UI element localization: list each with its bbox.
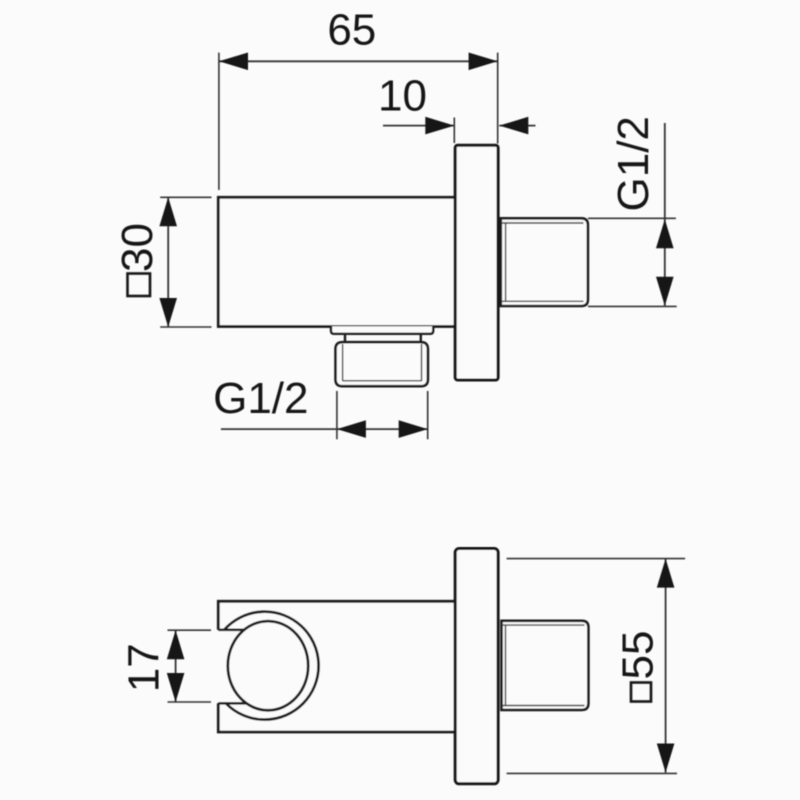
holder slot lines [218, 630, 246, 704]
elbow body (side view) [218, 197, 455, 326]
dim 17 arrow up [167, 630, 185, 659]
dim G1/2 bottom: extension lines [337, 391, 428, 439]
svg-text:65: 65 [327, 6, 376, 55]
dim 30 extension lines [160, 197, 211, 327]
thread connector (front view) inner lines [502, 625, 585, 705]
dim G1/2 bottom: leader + line [221, 428, 428, 430]
dim 10 line right tail [499, 125, 535, 127]
dim 30 arrow up [159, 197, 177, 226]
dim 55 square symbol [631, 683, 651, 702]
dim 10 arrow left [425, 117, 454, 135]
bottom outlet thread inner lines [343, 344, 422, 381]
right thread connector outer [501, 218, 588, 306]
svg-text:10: 10 [378, 72, 427, 121]
dim 55 arrow down [657, 744, 675, 773]
dim 17 arrow down [167, 673, 185, 702]
holder body (front view) with slot opening on left edge [218, 601, 455, 732]
dim 65 extension line left [218, 53, 220, 190]
dim 55 line [665, 559, 667, 773]
dim 65 arrow left [219, 53, 248, 71]
dim G1/2 right: arrow down [656, 277, 674, 306]
wall flange (front view) [455, 549, 498, 784]
dim 55 arrow up [657, 559, 675, 588]
dim 30 square symbol [128, 274, 151, 297]
bottom outlet neck [345, 334, 421, 342]
wall flange (side view) [455, 145, 498, 380]
dim 10 extension line [453, 118, 455, 144]
dim G1/2 bottom: arrow right [399, 420, 428, 438]
svg-text:30: 30 [113, 223, 162, 272]
dim G1/2 right: arrow up [656, 219, 674, 248]
dim 10 arrow right [499, 117, 528, 135]
thread connector (front view) outer [502, 621, 589, 710]
dim 10 line left tail [383, 125, 454, 127]
holder ring outer arc [224, 612, 318, 720]
dim 65 line [219, 60, 498, 62]
dim G1/2 bottom: arrow left [337, 420, 366, 438]
bottom outlet collar [331, 326, 433, 334]
svg-text:17: 17 [120, 643, 169, 692]
dim 30 arrow down [159, 298, 177, 327]
right thread connector inner lines [502, 223, 584, 301]
svg-text:G1/2: G1/2 [609, 116, 658, 211]
dim 17 line [175, 630, 177, 702]
bottom outlet thread outer [336, 342, 428, 386]
dim G1/2 right: extension lines [588, 218, 677, 306]
dim 17 extension lines [168, 630, 212, 702]
dim 65 arrow right [469, 53, 498, 71]
svg-text:G1/2: G1/2 [213, 374, 308, 423]
dim 55 extension lines [507, 559, 685, 774]
dim G1/2 right: line [664, 123, 666, 306]
svg-text:55: 55 [614, 631, 663, 680]
dim 65 extension line right [497, 53, 499, 144]
holder ring inner circle [228, 621, 308, 710]
dim 30 line [167, 197, 169, 327]
